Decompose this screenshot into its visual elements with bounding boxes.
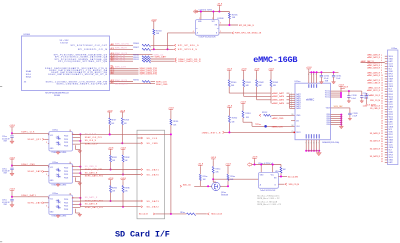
svg-text:SDHC_DAT3/SM2/SUART1_SD/PW_S2_: SDHC_DAT3/SM2/SUART1_SD/PW_S2_RT_B	[48, 73, 107, 76]
svg-text:37: 37	[381, 143, 383, 145]
svg-text:SD_DAT0_R: SD_DAT0_R	[370, 132, 381, 135]
svg-text:SD Card I/F: SD Card I/F	[115, 229, 170, 239]
svg-text:U19xx: U19xx	[52, 130, 58, 132]
svg-text:CMD2: CMD2	[389, 86, 394, 88]
svg-text:14: 14	[381, 85, 383, 87]
arrow bundle2 row3	[175, 58, 177, 60]
arrow bundle2 row4	[175, 60, 177, 62]
IC U1903 box	[49, 132, 73, 152]
arrow PWR net	[232, 32, 234, 34]
svg-text:38: 38	[381, 146, 383, 148]
svg-text:24: 24	[381, 110, 383, 112]
svg-text:41: 41	[381, 153, 383, 155]
ground U1903 bottom	[56, 152, 60, 154]
wire B pin U1909	[278, 183, 284, 185]
wire SDHC_CLK row	[110, 81, 134, 83]
wire bundle3 row3	[110, 71, 139, 73]
svg-text:R1928: R1928	[124, 120, 129, 122]
svg-text:U1908: U1908	[217, 18, 224, 20]
U1907 pin rows	[385, 55, 388, 57]
U1903 right pins	[73, 133, 81, 135]
svg-text:SD_CMD_R: SD_CMD_R	[85, 166, 97, 168]
wire block3 row2	[44, 138, 49, 140]
svg-text:23: 23	[381, 108, 383, 110]
wire bank4 bottom lead	[270, 87, 272, 104]
svg-text:31: 31	[381, 128, 383, 130]
svg-text:R19xx: R19xx	[180, 212, 185, 214]
svg-text:34: 34	[381, 136, 383, 138]
svg-text:RFU7: RFU7	[389, 74, 393, 76]
svg-text:11: 11	[381, 78, 383, 80]
wire SD_CLK row crossing	[73, 133, 171, 135]
svg-text:SDPB_Mxx = 1 .SD/L + .PX: SDPB_Mxx = 1 .SD/L + .PX	[257, 198, 280, 200]
svg-text:SDHC_D_PX: SDHC_D_PX	[115, 67, 127, 69]
U1904 left pin stubs	[48, 175, 49, 177]
svg-text:26: 26	[381, 116, 383, 118]
svg-text:10: 10	[381, 75, 383, 77]
svg-text:PXD1: PXD1	[64, 139, 68, 141]
svg-text:SD_CMD: SD_CMD	[147, 143, 159, 145]
resistor R1926	[170, 111, 172, 120]
svg-text:SD_DAT3_R: SD_DAT3_R	[85, 203, 98, 206]
svg-text:SD_DAT1: SD_DAT1	[147, 168, 160, 171]
wire SD row SD_DAT3	[80, 200, 140, 202]
svg-text:NC5: NC5	[389, 68, 392, 70]
resistor R1904	[153, 29, 155, 35]
svg-text:eMMC_CMD: eMMC_CMD	[272, 118, 284, 120]
wire SD row SD_DAT0	[80, 174, 140, 176]
svg-text:RST#: RST#	[296, 132, 301, 134]
wire R1904 top lead	[153, 23, 155, 30]
resistor R1941 34K	[243, 80, 245, 87]
svg-text:SPI_SP_SDL_S: SPI_SP_SDL_S	[178, 45, 199, 47]
svg-text:SDHC_DAT3: SDHC_DAT3	[28, 202, 43, 205]
ground C1914	[320, 82, 324, 84]
svg-text:eMMC_DAT4: eMMC_DAT4	[272, 102, 285, 105]
ground eMMC bottom	[316, 153, 321, 156]
wire bank1 bottom lead	[228, 87, 230, 93]
wire bank2 top lead	[243, 72, 245, 80]
svg-text:N: N	[306, 142, 307, 144]
resistor R1950 0M	[228, 116, 230, 123]
svg-text:39: 39	[381, 148, 383, 150]
eMMC VCCQ stubs	[308, 72, 310, 83]
capacitor C1915	[361, 91, 363, 96]
svg-text:32: 32	[381, 131, 383, 133]
svg-text:CMD8: CMD8	[389, 127, 394, 129]
svg-text:SD_CLK_S: SD_CLK_S	[85, 140, 97, 142]
ground U1903 OE	[75, 145, 77, 149]
resistor R1928	[121, 114, 123, 118]
svg-text:SDHC_CM_PX: SDHC_CM_PX	[115, 84, 128, 86]
svg-text:U19xx: U19xx	[52, 162, 58, 164]
svg-text:R1951: R1951	[245, 113, 250, 115]
arrow SPI_SP_SDL_S	[174, 44, 176, 46]
eMMC DAT pin rows	[290, 93, 296, 95]
svg-text:eMMC_DAT7: eMMC_DAT7	[272, 92, 285, 95]
svg-text:U19xx: U19xx	[275, 171, 280, 173]
svg-text:44: 44	[381, 161, 383, 163]
svg-text:22: 22	[381, 105, 383, 107]
svg-text:VSS8: VSS8	[389, 152, 393, 154]
svg-text:SDHC_CLK_PX1: SDHC_CLK_PX1	[85, 137, 102, 139]
svg-text:U1900: U1900	[24, 34, 31, 36]
svg-text:SD_DAT1_R: SD_DAT1_R	[370, 140, 381, 143]
junction RST/R1950	[228, 131, 230, 133]
svg-text:27: 27	[381, 118, 383, 120]
svg-text:R1905: R1905	[232, 14, 238, 16]
svg-text:VSS6: VSS6	[389, 71, 393, 73]
capacitor C block3	[10, 135, 13, 137]
eMMC top pin names	[308, 84, 309, 88]
arrow SDD_CD_B	[207, 213, 209, 215]
resistor R1927	[109, 114, 111, 118]
svg-text:X XX XX: X XX XX	[60, 43, 68, 45]
wire SDHC_CD row	[110, 54, 153, 56]
svg-text:SD_CD_EN: SD_CD_EN	[288, 176, 299, 178]
wire R1951 top lead	[242, 105, 244, 111]
ground C1911	[332, 82, 336, 84]
svg-text:43: 43	[381, 159, 383, 161]
ground C1915	[360, 101, 363, 103]
svg-text:SDHC_CLK: SDHC_CLK	[21, 132, 35, 134]
svg-text:35: 35	[381, 138, 383, 140]
wire block4 supply	[11, 161, 13, 168]
svg-text:PXD2: PXD2	[64, 174, 68, 176]
svg-text:R1931: R1931	[112, 157, 117, 159]
wire eMMC_RST	[225, 131, 295, 133]
resistor R1905 pull-up	[228, 12, 230, 14]
wire top supply rail	[194, 11, 229, 13]
ground VSS	[339, 126, 343, 129]
svg-text:SDHC_SIN_PX: SDHC_SIN_PX	[115, 48, 128, 50]
svg-text:eMMC_DAT6_R: eMMC_DAT6_R	[367, 74, 381, 77]
svg-text:PXD2: PXD2	[64, 206, 68, 208]
ground C1919	[348, 118, 351, 120]
wire bank3 bottom lead	[256, 87, 258, 100]
svg-text:B: B	[216, 33, 217, 35]
arrow SDD_CD	[180, 185, 182, 187]
svg-text:TP19xx: TP19xx	[255, 124, 261, 126]
wire block3 supply	[11, 128, 13, 135]
svg-text:PWR_SPU_SR_SSS0_18: PWR_SPU_SR_SSS0_18	[235, 33, 262, 35]
svg-text:33: 33	[381, 133, 383, 135]
arrow SD_DAT2	[141, 206, 143, 208]
svg-text:29: 29	[381, 123, 383, 125]
wire bundle2 row2	[110, 56, 134, 58]
wire block5 row1	[12, 196, 48, 198]
junction drain wire	[212, 178, 214, 180]
wire bottom join	[306, 150, 319, 152]
resistor R1942 34K	[256, 80, 258, 87]
svg-text:VCCQ: VCCQ	[325, 97, 331, 99]
svg-text:TxSxP G125DCUR: TxSxP G125DCUR	[198, 36, 216, 38]
svg-text:RFU1: RFU1	[389, 134, 393, 136]
svg-text:SDHC_DAT0_PX1: SDHC_DAT0_PX1	[85, 175, 103, 178]
U1904 top stub	[69, 162, 71, 164]
svg-text:U19xx: U19xx	[295, 81, 302, 83]
off-page arrow left	[193, 10, 197, 14]
svg-text:R1904: R1904	[156, 30, 162, 32]
capacitor C1911	[333, 72, 335, 75]
svg-text:N: N	[319, 142, 320, 144]
junction R1904 to row	[153, 48, 155, 50]
wire bundle3 row1	[110, 67, 139, 69]
wire block3 row1	[12, 132, 48, 134]
wire drain to U1909	[213, 178, 258, 180]
IC U1904 box	[49, 164, 73, 184]
svg-text:2: 2	[199, 18, 200, 20]
svg-text:SDHC_CMD/SM2_SBURT_SD/CPW_QB: SDHC_CMD/SM2_SBURT_SD/CPW_QB	[57, 83, 108, 85]
U1905 top stub	[69, 193, 71, 195]
svg-text:R1942: R1942	[258, 82, 263, 84]
svg-text:SDD_CD_M: SDD_CD_M	[289, 184, 300, 186]
svg-text:SD_CD_B: SD_CD_B	[139, 214, 148, 216]
svg-text:SDHC_DAT0: SDHC_DAT0	[28, 170, 43, 173]
wire R1951 to CLK net	[242, 118, 244, 122]
junction SD_CLK at bus	[109, 133, 111, 135]
svg-text:PXD1: PXD1	[64, 202, 68, 204]
svg-text:GND1: GND1	[389, 58, 394, 60]
svg-text:NC1: NC1	[389, 109, 392, 111]
svg-text:SDHC_DAT1: SDHC_DAT1	[21, 194, 36, 197]
svg-text:CMD4: CMD4	[389, 66, 394, 68]
IC U1907 connector box	[388, 50, 398, 165]
wire bank3 top lead	[256, 72, 258, 80]
eMMC VSS right pins	[331, 114, 342, 116]
svg-text:SD_DAT2_R: SD_DAT2_R	[370, 147, 381, 150]
junction VCCA	[200, 11, 202, 13]
wire SD_CD_B out	[155, 213, 186, 215]
svg-text:BGA169(153+16b): BGA169(153+16b)	[322, 141, 339, 144]
svg-text:CLK9: CLK9	[389, 104, 393, 106]
wire SD_CMD row	[80, 142, 140, 144]
wire R1950 top lead	[228, 109, 230, 116]
svg-text:eMMC_DS_R: eMMC_DS_R	[369, 95, 381, 97]
svg-text:R1907: R1907	[133, 47, 139, 49]
svg-text:SD_DAT1_R: SD_DAT1_R	[85, 196, 98, 199]
svg-text:RFU3: RFU3	[389, 114, 393, 116]
junction CD at SD_CLK row	[170, 133, 172, 135]
eMMC DAT bus vertical	[289, 94, 291, 108]
svg-text:VDD4: VDD4	[389, 117, 393, 119]
svg-text:RFU5: RFU5	[389, 94, 393, 96]
wire block4 row1	[12, 165, 48, 167]
svg-text:SDD_CD_B: SDD_CD_B	[211, 214, 222, 216]
svg-text:SDHC_DAT7: SDHC_DAT7	[155, 56, 168, 59]
wire SDD_CD row	[194, 185, 212, 187]
svg-text:25: 25	[381, 113, 383, 115]
wire B pin out	[219, 32, 232, 34]
wire R1950 bottom lead	[228, 123, 230, 133]
svg-text:SDA0: SDA0	[26, 70, 32, 73]
svg-text:eMMC_CLK: eMMC_CLK	[272, 126, 284, 128]
svg-text:R19xx: R19xx	[230, 176, 235, 178]
svg-text:eMMC_DAT6: eMMC_DAT6	[272, 95, 285, 98]
off-page arrow left U1909	[247, 163, 251, 167]
ground U1905 OE	[75, 209, 77, 213]
junction VCCB	[212, 11, 214, 13]
svg-text:SDHC_DAT3_PX1: SDHC_DAT3_PX1	[85, 206, 103, 209]
svg-text:K5: K5	[292, 131, 294, 133]
wire VSS vertical	[340, 115, 342, 126]
junction EN/R1905	[228, 24, 230, 26]
IC U1906 eMMC box	[295, 83, 331, 140]
svg-text:SDQ1: SDQ1	[26, 76, 32, 78]
svg-text:CMD6: CMD6	[389, 147, 394, 149]
U1903 left pin stubs	[48, 143, 49, 145]
svg-text:PXD1: PXD1	[64, 171, 68, 173]
arrow SD_DAT0	[141, 174, 143, 176]
svg-text:SDHC_CMD: SDHC_CMD	[156, 84, 168, 86]
arrow eMMC_RST	[223, 131, 225, 133]
ground U1905 bottom	[56, 216, 60, 218]
svg-text:eMMC_DAT7_R: eMMC_DAT7_R	[361, 60, 375, 63]
eMMC DS pin	[291, 120, 295, 122]
IC U1905 box	[49, 195, 73, 215]
wire VCCA stub U1909	[260, 165, 262, 173]
svg-text:VSS2: VSS2	[389, 111, 393, 113]
junction CD vertical	[170, 213, 172, 215]
wire bundle2 row3	[110, 58, 134, 60]
svg-text:W.96B: W.96B	[54, 95, 61, 97]
wire bank1 top lead	[228, 72, 230, 80]
svg-text:R19xx: R19xx	[216, 168, 221, 170]
resistor R1960	[199, 167, 201, 175]
svg-text:M5: M5	[292, 114, 294, 116]
svg-text:P: P	[316, 74, 317, 76]
U1904 right pins	[73, 166, 81, 168]
wire bank2 bottom lead	[243, 87, 245, 97]
svg-text:PXD2: PXD2	[64, 142, 68, 144]
svg-text:PXD0: PXD0	[64, 136, 68, 138]
capacitor C1914	[320, 72, 322, 75]
resistor R1931	[110, 151, 112, 155]
svg-text:5: 5	[212, 18, 213, 20]
wire SPI_SIN row	[110, 48, 134, 50]
svg-text:GND5: GND5	[389, 119, 394, 121]
capacitor C1919	[349, 108, 351, 113]
svg-text:GND9: GND9	[389, 79, 394, 81]
svg-text:eMMC: eMMC	[306, 98, 314, 102]
wire VDDQ vertical join	[340, 91, 342, 97]
page border tick bottom-left	[0, 241, 2, 243]
arrow SD_DAT3	[141, 200, 143, 202]
svg-text:SD_DAT3_R: SD_DAT3_R	[370, 155, 381, 158]
svg-text:eMMC_DAT5: eMMC_DAT5	[272, 99, 285, 102]
wire CMD to chip	[271, 114, 295, 116]
svg-text:12: 12	[381, 80, 383, 82]
wire SD row SD_DAT1	[80, 169, 140, 171]
svg-text:SD_DAT0_R: SD_DAT0_R	[85, 171, 98, 174]
resistor R1936	[122, 181, 124, 185]
wire bank4 top lead	[270, 72, 272, 80]
resistor R1932	[122, 151, 124, 155]
svg-text:VDD6: VDD6	[389, 96, 393, 98]
junction gate wire	[207, 185, 209, 187]
svg-text:SDPB_Mxx = 0 .1 .SD/L + PX: SDPB_Mxx = 0 .1 .SD/L + PX	[257, 204, 281, 206]
svg-text:R1950: R1950	[232, 118, 237, 120]
svg-text:eMMC_RST#_R: eMMC_RST#_R	[367, 90, 381, 92]
svg-text:36: 36	[381, 141, 383, 143]
svg-text:SDHC_D5_PX: SDHC_D5_PX	[114, 60, 126, 62]
svg-text:SDHC_DAT3_PX1: SDHC_DAT3_PX1	[140, 73, 158, 76]
svg-text:CLK3: CLK3	[389, 63, 393, 65]
resistor R1940 34K	[228, 80, 230, 87]
svg-text:28: 28	[72, 166, 74, 168]
svg-text:4: 4	[193, 31, 194, 33]
svg-text:19: 19	[381, 98, 383, 100]
eMMC bottom NC pins	[305, 140, 307, 151]
svg-text:M6: M6	[292, 125, 294, 127]
wire bundle3 row4	[110, 73, 139, 75]
wire VCCA stub	[200, 12, 202, 20]
svg-text:SD_DAT3: SD_DAT3	[147, 200, 160, 203]
svg-text:SPI_SOUT/SDHC_CLK_OUT: SPI_SOUT/SDHC_CLK_OUT	[71, 45, 108, 47]
svg-text:VSS4: VSS4	[389, 91, 393, 93]
svg-text:CLK5: CLK5	[389, 144, 393, 146]
arrow SD_DAT1	[141, 169, 143, 171]
eMMC VDDI pin	[331, 107, 350, 109]
SD connector box	[137, 130, 165, 219]
svg-text:16: 16	[381, 90, 383, 92]
svg-text:R1936: R1936	[125, 187, 130, 189]
capacitor C1916	[348, 91, 350, 96]
svg-text:17: 17	[381, 93, 383, 95]
transistor Q1901 BSS138	[212, 182, 220, 190]
arrow SDD_CD_M	[285, 183, 287, 185]
svg-text:28: 28	[72, 197, 74, 199]
ground cap block3	[10, 141, 14, 144]
eMMC VDDQ right pins	[331, 90, 342, 92]
svg-text:SDD_CD: SDD_CD	[183, 184, 192, 186]
svg-text:VDDI: VDDI	[326, 108, 331, 110]
wire EN pin	[219, 24, 238, 26]
wire block5 supply	[11, 192, 13, 199]
wire U1909 supply rail	[252, 164, 281, 166]
svg-text:R1940: R1940	[231, 82, 236, 84]
svg-text:N: N	[308, 142, 309, 144]
wire eMMC_DAT7_R entry	[361, 62, 385, 64]
svg-text:SDHC_CK_PX: SDHC_CK_PX	[115, 80, 128, 82]
wire VCCB stub U1909	[272, 165, 274, 173]
arrow SD_CD_B	[153, 213, 155, 215]
ground C1916	[347, 101, 350, 103]
svg-text:B: B	[275, 185, 276, 187]
wire VCCB stub	[212, 12, 214, 20]
svg-text:15: 15	[381, 88, 383, 90]
resistor R1935	[110, 181, 112, 185]
resistor R1963 pull-up	[280, 165, 282, 168]
IC U1900 host controller box	[22, 36, 110, 91]
svg-text:SD_CLK: SD_CLK	[147, 138, 158, 140]
wire block4 row2	[44, 171, 49, 173]
wire SD row SD_DAT2	[80, 206, 140, 208]
resistor R1962	[227, 167, 229, 175]
svg-text:R1952: R1952	[262, 112, 267, 114]
svg-text:21: 21	[381, 103, 383, 105]
svg-text:R1932: R1932	[125, 157, 130, 159]
transistor top lead	[215, 181, 217, 183]
svg-text:SDHC_CK_P: SDHC_CK_P	[85, 143, 99, 145]
svg-text:N: N	[316, 142, 317, 144]
page border tick left	[0, 86, 2, 88]
svg-text:P: P	[308, 74, 309, 76]
wire EN U1909	[278, 176, 287, 178]
svg-text:SDHC_CLK_PX1: SDHC_CLK_PX1	[115, 44, 129, 46]
svg-text:20: 20	[381, 100, 383, 102]
svg-text:VDD0: VDD0	[389, 56, 393, 58]
